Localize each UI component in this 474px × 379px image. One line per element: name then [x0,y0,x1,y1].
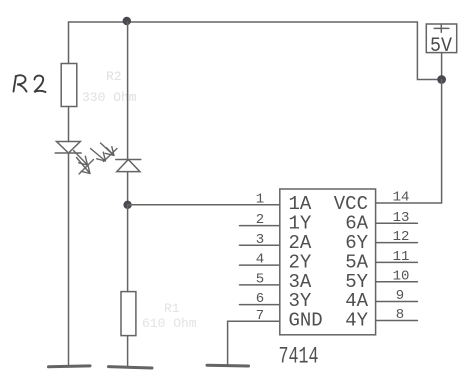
resistor R2 [61,64,77,107]
pin 3 [240,232,280,248]
pin 2 [240,212,280,228]
pin 6 [240,291,280,307]
svg-text:10: 10 [393,268,410,284]
wire photodiode to node [127,172,129,205]
svg-text:GND: GND [289,310,323,332]
LED light arrows [74,151,94,175]
wire LED to ground [68,153,70,366]
pin 13 [376,210,418,226]
wire 5V box to node [441,53,443,80]
svg-text:330 Ohm: 330 Ohm [82,90,137,105]
value label R1 610 Ohm (faint) [142,301,197,331]
pin 4 [240,252,280,268]
svg-text:610 Ohm: 610 Ohm [142,316,197,331]
svg-text:1: 1 [256,192,264,208]
svg-text:3: 3 [256,232,264,248]
label R2 handwritten [14,75,46,92]
resistor R1 [121,292,136,336]
ground (left) [49,364,91,368]
svg-text:12: 12 [393,229,410,245]
photodiode light arrows [91,143,118,162]
svg-text:7: 7 [256,308,264,324]
svg-text:R1: R1 [164,301,180,316]
svg-text:4Y: 4Y [345,310,368,332]
svg-text:4: 4 [256,252,264,268]
node junction right [437,75,446,84]
svg-text:R2: R2 [106,69,122,84]
pin 9 [376,288,418,304]
wire top right corner down [417,22,441,80]
IC U1 7414 [280,189,376,335]
svg-text:9: 9 [396,288,404,304]
pin 12 [376,229,418,245]
node junction mid [123,201,131,209]
svg-text:5: 5 [256,272,264,288]
wire left vertical to R2 [68,22,70,64]
wire R1 to ground [127,336,129,367]
svg-text:13: 13 [393,210,410,226]
svg-text:6: 6 [256,291,264,307]
svg-text:8: 8 [396,307,404,323]
pin 10 [376,268,418,284]
value label R2 330 Ohm (faint) [82,69,137,105]
photodiode D2 [116,160,141,172]
pin 7 wire to ground [228,308,280,365]
ground (middle) [109,367,153,368]
svg-text:11: 11 [393,249,410,265]
svg-text:14: 14 [393,190,410,206]
pin 8 [376,307,418,323]
wire node to pin 1 [128,204,280,206]
pin 11 [376,249,418,265]
wire R2 to LED [68,107,70,142]
svg-text:7414: 7414 [279,344,319,370]
pin 5 [240,272,280,288]
ground (right) [207,364,249,368]
wire node to R1 [127,205,129,292]
svg-text:2: 2 [256,212,264,228]
IC pin name labels [289,193,369,331]
wire middle vertical to photodiode [127,22,129,160]
LED D1 [55,142,81,154]
battery +5V box [426,24,456,58]
wire node to pin 14 [376,80,442,204]
wire top horizontal [69,21,418,23]
node junction top [123,17,131,25]
